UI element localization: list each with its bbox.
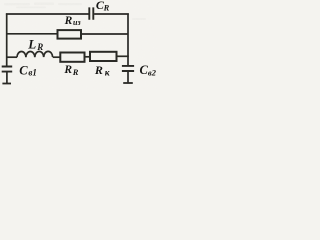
- svg-text:R: R: [64, 15, 73, 27]
- label C_v1: [19, 63, 37, 77]
- capacitor C_v1: [2, 67, 13, 72]
- wire left vertical rail: [6, 13, 8, 66]
- label L_R: [27, 37, 43, 52]
- svg-text:R: R: [36, 42, 43, 52]
- svg-text:из: из: [73, 18, 81, 27]
- svg-text:в1: в1: [28, 68, 37, 78]
- capacitor C_R: [89, 7, 93, 19]
- resistor R_iz: [58, 30, 82, 38]
- svg-text:L: L: [27, 37, 36, 52]
- terminal bar C_v1: [2, 83, 11, 85]
- svg-text:C: C: [19, 63, 28, 77]
- faint scan bleed-through marks (decorative): [4, 3, 146, 21]
- wire R_k to right rail: [117, 55, 129, 57]
- svg-text:R: R: [94, 63, 103, 77]
- capacitor C_v2: [122, 66, 134, 71]
- wire R_iz branch left: [7, 33, 58, 35]
- wire right vertical rail: [127, 13, 129, 65]
- svg-text:R: R: [72, 67, 79, 77]
- terminal bar C_v2: [123, 82, 133, 84]
- wire top, left of C_R: [6, 13, 89, 15]
- svg-text:R: R: [63, 64, 72, 76]
- label R_iz: [64, 15, 81, 27]
- label C_v2: [140, 63, 157, 78]
- wire middle branch left: [7, 56, 17, 58]
- inductor L_R: [17, 51, 53, 57]
- resistor R_k: [90, 52, 117, 61]
- svg-text:R: R: [103, 3, 110, 13]
- label R_k: [94, 63, 111, 79]
- wire R_iz branch right: [81, 33, 128, 35]
- resistor R_R: [60, 53, 84, 62]
- label R_R: [63, 64, 78, 77]
- label C_R: [96, 0, 110, 13]
- wire top, right of C_R: [94, 13, 129, 15]
- wire inductor to R_R: [53, 56, 61, 58]
- wire R_R to R_k: [85, 56, 91, 58]
- wire C_v1 bottom lead: [6, 72, 8, 84]
- wire C_v2 bottom lead: [127, 71, 129, 83]
- svg-text:в2: в2: [148, 68, 157, 78]
